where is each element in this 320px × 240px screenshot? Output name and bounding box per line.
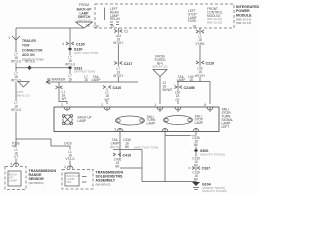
svg-text:VT/LG: VT/LG bbox=[65, 157, 75, 161]
svg-text:4: 4 bbox=[10, 162, 12, 166]
svg-text:WT/GY: WT/GY bbox=[113, 74, 124, 78]
splice S306 bbox=[194, 149, 197, 151]
connector triangle fuse feed bbox=[153, 70, 167, 77]
svg-text:VT/BK: VT/BK bbox=[195, 42, 205, 46]
ground chain from lamp box pin 3 bbox=[119, 132, 121, 169]
in-line connector C210 bbox=[196, 61, 204, 64]
svg-text:WT: WT bbox=[105, 98, 110, 102]
bottom feed overhang bbox=[12, 139, 16, 146]
wire to lamp box pin 3 bbox=[159, 77, 161, 105]
svg-text:(8W-10-15): (8W-10-15) bbox=[236, 21, 251, 25]
wire middle chain from top bus bbox=[69, 28, 71, 82]
svg-text:1: 1 bbox=[154, 103, 156, 107]
transmission range sensor dashed box bbox=[5, 167, 26, 190]
svg-text:WT/LG: WT/LG bbox=[11, 79, 22, 83]
wire label bbox=[172, 91, 183, 102]
marker lamps bus bbox=[46, 81, 138, 83]
svg-text:C337: C337 bbox=[202, 167, 211, 171]
pin arc solenoid bbox=[67, 166, 73, 169]
wire label bbox=[62, 90, 67, 101]
integrated power module dashed box bbox=[95, 4, 234, 28]
labels above junction bbox=[110, 138, 131, 149]
svg-text:CONNECTOR: CONNECTOR bbox=[22, 48, 43, 52]
svg-text:C2: C2 bbox=[124, 30, 128, 34]
label front control module block bbox=[207, 7, 223, 24]
in-line connector C2 bbox=[114, 30, 122, 33]
svg-text:C410: C410 bbox=[113, 86, 122, 90]
svg-text:WT/GY: WT/GY bbox=[113, 41, 124, 45]
short ground link bbox=[120, 167, 142, 169]
label from fuse bbox=[152, 55, 167, 69]
label tail/stop lamp bbox=[195, 114, 204, 125]
svg-text:(8W-51): (8W-51) bbox=[110, 145, 121, 149]
wire label bbox=[190, 157, 202, 168]
svg-text:(8W-51-5): (8W-51-5) bbox=[16, 94, 29, 98]
svg-text:(W/42RLE): (W/42RLE) bbox=[96, 183, 111, 187]
arrow to marker lamps bbox=[46, 80, 51, 84]
bottom feed wire from left vertical bbox=[16, 139, 70, 146]
label FROM BACK-UP LAMP SWITCH bbox=[77, 3, 93, 22]
bus labels right bbox=[177, 75, 194, 82]
wire left vertical main bbox=[15, 28, 17, 139]
svg-text:C210B: C210B bbox=[184, 86, 196, 90]
wire label bbox=[64, 150, 76, 161]
svg-text:18: 18 bbox=[84, 78, 88, 82]
svg-text:WT/LG: WT/LG bbox=[11, 60, 22, 64]
splice diamond bbox=[27, 65, 32, 70]
label tail stop turn signal lamp left bbox=[222, 108, 234, 130]
wire label L50 18 WT/GY bbox=[194, 67, 206, 78]
svg-text:(W/45RFE): (W/45RFE) bbox=[29, 181, 44, 185]
svg-text:2: 2 bbox=[101, 103, 103, 107]
svg-text:TOW: TOW bbox=[22, 44, 29, 48]
label integrated power module bbox=[236, 5, 259, 25]
right ground chain bbox=[195, 132, 197, 183]
inner switch box bbox=[8, 171, 21, 186]
svg-text:LAMP: LAMP bbox=[147, 122, 156, 126]
svg-text:(W/TRLR TOW): (W/TRLR TOW) bbox=[74, 70, 95, 74]
drop to back-up lamp bbox=[59, 82, 67, 104]
label tail/turn lamp bbox=[147, 115, 157, 126]
svg-text:2: 2 bbox=[61, 103, 63, 107]
svg-text:18: 18 bbox=[68, 78, 72, 82]
in-line connector C337 bbox=[189, 167, 201, 170]
in-line connector S410 bbox=[113, 153, 121, 156]
wire label L7 18 WT/LG bbox=[64, 56, 76, 67]
fuse mark bbox=[110, 22, 119, 25]
wire label bbox=[101, 91, 113, 102]
svg-text:LAMP: LAMP bbox=[78, 119, 87, 123]
svg-text:1: 1 bbox=[8, 36, 10, 40]
svg-text:C410: C410 bbox=[123, 154, 132, 158]
ground link bus below box bbox=[165, 135, 196, 137]
tail/turn lamp oval bbox=[116, 116, 145, 125]
wire horizontal top bbox=[16, 27, 84, 29]
svg-text:LAMP: LAMP bbox=[195, 121, 204, 125]
svg-text:WT/LG: WT/LG bbox=[25, 60, 36, 64]
wire label L7 18 bbox=[64, 74, 76, 81]
svg-text:(W/AUTO TRANS): (W/AUTO TRANS) bbox=[202, 189, 227, 193]
pin arcs top bbox=[64, 107, 70, 110]
svg-text:BK/WT: BK/WT bbox=[163, 88, 173, 92]
svg-text:18: 18 bbox=[86, 23, 90, 27]
svg-text:TRAILER: TRAILER bbox=[22, 39, 37, 43]
right bus wire bbox=[177, 82, 210, 105]
svg-text:WT: WT bbox=[62, 97, 67, 101]
drop with C410 bbox=[103, 86, 111, 89]
wire label L63 18 WT/GY bbox=[112, 34, 125, 45]
svg-text:AT MARKER: AT MARKER bbox=[47, 78, 66, 82]
ground web vertical bbox=[141, 150, 143, 182]
ground web bottom horizontal bbox=[142, 181, 196, 183]
svg-text:(W/O TRLR TOW): (W/O TRLR TOW) bbox=[134, 146, 158, 150]
tail stop turn ground wire bbox=[164, 132, 166, 182]
svg-text:LAMP: LAMP bbox=[92, 78, 101, 82]
drop with C210B bbox=[177, 82, 179, 105]
wire label bbox=[190, 171, 202, 182]
trailer tow connector tap bbox=[12, 36, 20, 40]
back-up lamp symbol bbox=[63, 115, 72, 124]
wire label bbox=[190, 136, 202, 147]
wire label L7 18 WT/LG bbox=[10, 53, 22, 64]
svg-text:C217: C217 bbox=[124, 62, 133, 66]
splice S130 bbox=[68, 48, 71, 50]
svg-text:3: 3 bbox=[114, 128, 116, 132]
label left stop lamp block bbox=[188, 9, 197, 23]
label left rear lamp relay block bbox=[104, 8, 106, 21]
wire to range sensor bbox=[15, 146, 17, 166]
pin arcs bottom bbox=[67, 107, 210, 112]
ground G104 bbox=[192, 182, 200, 186]
left rear lamp box bbox=[54, 107, 219, 132]
connector triangle from back-up lamp switch bbox=[76, 22, 93, 28]
svg-text:WT/GY: WT/GY bbox=[195, 74, 206, 78]
wire tap to S331 bbox=[16, 67, 70, 69]
svg-text:(W/AUTO TRANS): (W/AUTO TRANS) bbox=[200, 152, 225, 156]
svg-text:4: 4 bbox=[62, 42, 64, 46]
wire to solenoid assembly bbox=[69, 146, 71, 169]
junction horizontal bbox=[113, 149, 142, 151]
bus labels bbox=[84, 75, 100, 82]
svg-text:VT: VT bbox=[14, 155, 18, 159]
svg-text:(8W-10-12): (8W-10-12) bbox=[152, 65, 167, 69]
wire label L7 18 WT/LG lower bbox=[10, 101, 22, 112]
label transmission range sensor bbox=[29, 169, 57, 185]
svg-text:LEFT: LEFT bbox=[222, 125, 230, 129]
svg-text:(W/O TRLR TOW): (W/O TRLR TOW) bbox=[74, 51, 98, 55]
label transmission solenoid assembly bbox=[96, 171, 124, 187]
in-line connector C130 bbox=[66, 42, 74, 45]
svg-text:WT/LG: WT/LG bbox=[11, 108, 22, 112]
wire label L7 18 WT/GY bbox=[112, 67, 125, 78]
wire label bbox=[111, 158, 124, 169]
svg-text:2: 2 bbox=[64, 165, 66, 169]
pin arc range sensor bbox=[13, 163, 19, 166]
tail/stop lamp oval bbox=[164, 116, 193, 125]
svg-text:SW: SW bbox=[67, 180, 72, 184]
wire label L1 18 VT bbox=[194, 35, 206, 46]
svg-text:(8W-10-25): (8W-10-25) bbox=[207, 20, 222, 24]
svg-text:C420: C420 bbox=[64, 142, 72, 146]
connector triangle C307 bbox=[18, 82, 29, 88]
svg-text:LAMP: LAMP bbox=[9, 179, 17, 183]
splice S331 bbox=[68, 67, 71, 69]
transmission solenoid dashed box bbox=[62, 170, 93, 190]
wire label L7 18 WT/LG bbox=[10, 72, 22, 83]
svg-text:10: 10 bbox=[110, 25, 114, 29]
svg-text:C210: C210 bbox=[206, 62, 215, 66]
label trailer tow connector bbox=[22, 39, 43, 61]
svg-text:6: 6 bbox=[204, 103, 206, 107]
in-line connector C217 bbox=[114, 62, 122, 65]
back-up lamp switch inner box bbox=[65, 173, 79, 186]
svg-text:RELAY: RELAY bbox=[110, 17, 121, 21]
svg-text:FUSE: FUSE bbox=[188, 19, 197, 23]
svg-text:C130: C130 bbox=[76, 43, 85, 47]
wire label Z1 18 BK bbox=[163, 81, 173, 92]
svg-text:16: 16 bbox=[192, 25, 196, 29]
